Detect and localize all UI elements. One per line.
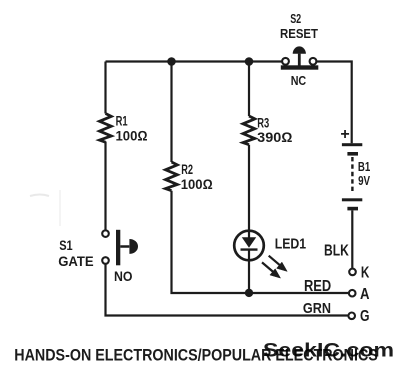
- svg-text:K: K: [361, 264, 370, 281]
- svg-text:100Ω: 100Ω: [181, 176, 213, 192]
- svg-text:9V: 9V: [358, 174, 370, 188]
- svg-text:NO: NO: [114, 268, 133, 284]
- svg-text:NC: NC: [291, 73, 307, 88]
- svg-text:R1: R1: [116, 114, 128, 129]
- svg-text:100Ω: 100Ω: [116, 128, 148, 144]
- svg-text:SeekIC.com: SeekIC.com: [263, 340, 394, 362]
- svg-text:390Ω: 390Ω: [257, 129, 292, 145]
- svg-text:GATE: GATE: [58, 253, 93, 269]
- svg-text:B1: B1: [358, 160, 370, 174]
- svg-text:+: +: [340, 126, 349, 143]
- svg-text:BLK: BLK: [324, 243, 349, 260]
- svg-text:S1: S1: [59, 237, 73, 253]
- svg-text:RED: RED: [304, 278, 331, 295]
- svg-text:RESET: RESET: [280, 26, 318, 41]
- svg-text:G: G: [360, 308, 370, 325]
- svg-text:R2: R2: [181, 162, 193, 177]
- svg-text:LED1: LED1: [275, 235, 307, 252]
- svg-text:S2: S2: [290, 11, 301, 26]
- svg-text:GRN: GRN: [303, 301, 331, 317]
- svg-text:A: A: [360, 286, 370, 303]
